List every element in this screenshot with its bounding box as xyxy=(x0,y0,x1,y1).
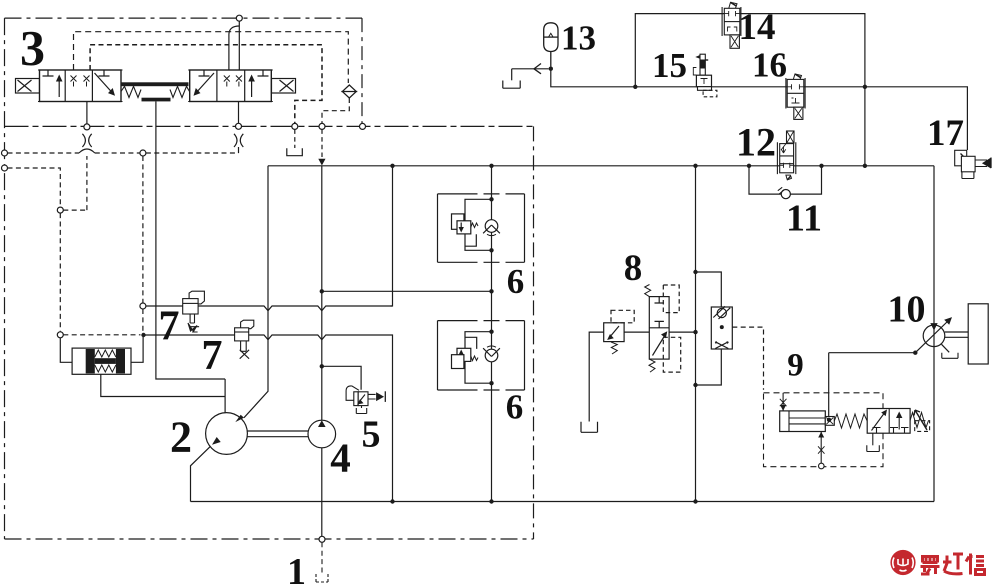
wire: valve3 right pilot vertical x=239 to top circle xyxy=(238,21,240,70)
dashed drain lateral y=152.5 with hump over x=86.4 xyxy=(8,152,80,154)
group8 relief drain to tank xyxy=(589,332,604,421)
svg-text:1: 1 xyxy=(287,551,306,585)
valve 3 left pilot end box with X xyxy=(16,79,40,94)
svg-text:15: 15 xyxy=(652,46,687,85)
dashed link from node right to valve3 cell drop x=86.4 xyxy=(63,156,87,210)
wire: pump4 branch y=290.8 to check assemblies chain xyxy=(322,290,492,292)
enclosure frame right-top segment xyxy=(361,18,363,123)
servo control cylinder of pump 2 xyxy=(72,348,131,374)
wire valve3 left block bottom to rail xyxy=(86,102,88,124)
directional control valve 3 xyxy=(16,70,296,102)
group8 pilot dashed line to actuator 9 xyxy=(732,327,763,390)
group8 check cartridge box xyxy=(711,307,732,349)
group9 dashed enclosure xyxy=(764,393,884,467)
wire: x=392 riser from supply to y=306 xyxy=(391,166,393,307)
group9 spring xyxy=(834,414,867,428)
svg-text:3: 3 xyxy=(20,20,45,76)
dashed line from diamond down to pilot rail circle xyxy=(322,98,349,123)
servo pilot node circle x=58 y=334.3 xyxy=(57,332,63,338)
wire cylinder right port riser x=142.6 xyxy=(131,335,143,362)
svg-text:6: 6 xyxy=(507,262,525,301)
wire: motor return x=933.5 lower to tank line xyxy=(933,347,935,502)
relief valve 5 xyxy=(346,386,385,414)
svg-text:10: 10 xyxy=(888,289,926,331)
pilot rail node circle x=86.4 with valve3 left drop xyxy=(84,124,90,130)
valve 3 spring right xyxy=(170,86,190,97)
group9 valve right spring with arrow xyxy=(910,413,928,428)
dashed pilot arrow from rail to supply junction x=321.5 xyxy=(321,129,323,158)
assembly 6 lower relief square with arrow xyxy=(457,348,471,361)
group9 valve drain tank xyxy=(872,433,874,445)
dashed pilot box 1 around valve 3 xyxy=(74,32,349,83)
wire: component-8 bypass vertical x=695 xyxy=(695,166,697,502)
group9 cylinder xyxy=(780,411,826,432)
logic valve group 8 xyxy=(581,270,764,433)
valve 3 left block body xyxy=(40,70,122,102)
enclosure frame top dash-dot xyxy=(5,17,363,19)
throttle orifice below right rail node xyxy=(234,134,243,147)
svg-text:13: 13 xyxy=(561,19,596,58)
node circle x=142.4 y=152.5 xyxy=(140,150,146,156)
svg-text:2: 2 xyxy=(170,413,192,462)
pilot pump 4 xyxy=(308,420,336,448)
wire: valve3 second pilot vertical x=228.4 with S-hook xyxy=(229,26,239,70)
group9 pilot valve body xyxy=(867,409,910,434)
group8 main valve body xyxy=(649,297,669,360)
pressure switch 17 xyxy=(955,150,991,178)
group8 bypass branch to check cartridge xyxy=(696,272,722,307)
node circle x=142.4 y=305.5 xyxy=(140,303,146,309)
valve 3 bold tank T bar xyxy=(142,98,171,102)
throttle orifice below left rail node xyxy=(82,134,91,147)
wire: line y=334.5 drain with crossover V hops and drop to tank line xyxy=(144,335,393,502)
branch to valve 14 top rail xyxy=(635,14,865,166)
reducing valve 15 xyxy=(693,54,717,97)
motor10 output shaft xyxy=(945,332,968,337)
valve 3 block double edge lines xyxy=(38,70,273,102)
enclosure frame bottom dash-dot xyxy=(5,538,534,540)
valve 3 right block cell1 diagonal arrow xyxy=(196,73,215,94)
group9 pilot feed from motor line xyxy=(828,353,830,417)
variable displacement pump 2 xyxy=(206,413,248,455)
motor10 variable arrow diagonal xyxy=(915,320,949,353)
assembly 6 upper pilot rect xyxy=(452,214,464,229)
dashed vertical from node down to servo pilot circle xyxy=(59,213,61,331)
svg-text:12: 12 xyxy=(736,120,776,165)
svg-text:7: 7 xyxy=(202,333,223,379)
red watermark text dingdaxin xyxy=(921,554,985,575)
dashed lateral y=334.3 from circle to cylinder junction xyxy=(63,334,140,336)
valve 3 left block cell1 up-arrow and port T xyxy=(58,78,60,98)
wire: tank return line y=501 xyxy=(191,501,935,503)
wire: pump2 suction diagonal to tank line xyxy=(191,445,213,502)
wire: check-assembly chain vertical x=491 xyxy=(491,166,493,502)
tank symbol under valve 3 pilot drain xyxy=(287,148,303,155)
left frame port circle y=167.5 xyxy=(2,165,8,171)
svg-text:11: 11 xyxy=(786,198,822,240)
svg-text:4: 4 xyxy=(330,435,351,481)
svg-text:5: 5 xyxy=(362,414,381,456)
node circle on top frame feeding valve 3 pilot xyxy=(236,15,242,21)
assembly 6 lower bottom tee xyxy=(465,361,492,383)
group8 pilot relief left xyxy=(604,323,624,342)
left frame port circle y=152.5 xyxy=(2,150,8,156)
pilot rail node circle x=321.5 xyxy=(319,123,325,129)
pilot rail node circle x=238 with valve3 right drop xyxy=(236,123,242,129)
wire right throttle down to dashed drain lateral xyxy=(238,147,240,153)
pilot operated valve 7 lower xyxy=(235,320,254,359)
pilot accumulator supply line y=86.3 xyxy=(551,14,968,166)
wire: valve5 branch y=365.8 xyxy=(322,366,361,390)
assembly 6 lower relief spring xyxy=(471,356,478,361)
group8 main valve bottom spring xyxy=(649,359,655,372)
wire: pump2 discharge riser x=267.5 to supply line xyxy=(244,166,268,418)
svg-text:17: 17 xyxy=(927,113,964,154)
junction dot cylinder right port y=334.5 xyxy=(141,333,145,337)
enclosure frame left edge xyxy=(4,18,6,539)
dashed drain lateral continuation to x=238 xyxy=(95,152,239,154)
svg-text:14: 14 xyxy=(739,7,776,48)
check valve 11 loop under valve 12 xyxy=(747,164,824,199)
wire: main supply line y=165.3 xyxy=(268,165,934,167)
svg-text:8: 8 xyxy=(624,248,643,289)
assembly 6 upper top tee xyxy=(465,199,492,221)
wire: pump2 top port collector x=224.6 xyxy=(224,379,226,413)
wire: pump4 discharge riser x=321.3 with hop Vs xyxy=(321,166,323,420)
assembly 6 lower pilot rect xyxy=(452,355,464,369)
pump4 suction tank circle xyxy=(319,536,325,542)
wire: motor supply drop x=933.5 upper xyxy=(933,166,935,326)
variable motor 10 xyxy=(829,304,989,364)
wire: valve-3 drain x=155.4 down and right to pump2 xyxy=(156,102,225,380)
filter check diamond on pilot supply xyxy=(341,85,357,98)
motor10 control line to group 9 xyxy=(829,352,916,354)
accumulator 13 xyxy=(544,23,558,71)
pilot rail node circle x=294.3 xyxy=(292,123,298,129)
enclosure frame right vertical x=533 xyxy=(533,126,535,539)
assembly 6 upper check valve xyxy=(485,220,498,233)
assembly 6 upper relief spring xyxy=(471,223,478,228)
pilot rail y=125.9 dash-dot xyxy=(5,125,534,127)
arrowhead onto supply junction xyxy=(318,159,325,166)
valve 3 right block cell2 pilot X marks xyxy=(224,76,242,82)
svg-text:16: 16 xyxy=(752,46,787,85)
wire valve3 right block bottom to rail xyxy=(238,102,240,124)
wire cylinder left port from pilot circle xyxy=(60,338,72,363)
red watermark logo xyxy=(890,550,915,575)
group9 bottom drain orifice X xyxy=(820,432,822,464)
tank line junction dots xyxy=(320,164,868,504)
crossover hump at x=86.4 xyxy=(79,149,95,153)
motor10 case drain to tank xyxy=(942,344,950,352)
wire: pump4 suction to tank circle xyxy=(321,448,323,536)
accumulator relief to tank xyxy=(503,64,549,89)
group9 top feed orifice X xyxy=(782,393,784,411)
dashed vertical x=142.4 between node circles xyxy=(142,156,144,332)
pump drive shaft xyxy=(247,431,308,437)
dashed drain from rail to tank under valve 3 xyxy=(294,129,296,148)
node circle x=59.8 y=209.6 xyxy=(57,207,63,213)
valve 3 spring left xyxy=(121,86,141,97)
svg-text:6: 6 xyxy=(506,388,524,427)
dashed pilot box 2 around valve 3 xyxy=(90,45,322,124)
check/relief assembly 6 lower xyxy=(438,321,525,390)
pilot rail node circle x=362 xyxy=(360,123,366,129)
load block xyxy=(968,304,988,364)
group8 pilot dashed chambers xyxy=(663,285,679,313)
cartridge valve 14 xyxy=(722,2,741,48)
valve 3 bold center link bar xyxy=(121,82,189,86)
assembly 6 upper relief square with arrow xyxy=(457,221,471,234)
wire: line y=306 pilot feed with crossover V hops xyxy=(146,306,393,311)
assembly 6 upper junction dots xyxy=(489,197,493,201)
valve 3 left block cell2 pilot X marks xyxy=(71,76,90,82)
assembly 6 lower top tee xyxy=(465,332,492,349)
group8 pilot link relief to main valve xyxy=(624,331,695,333)
assembly 6 upper drain loop xyxy=(465,234,492,250)
sequencing valve 16 xyxy=(786,74,805,119)
servo actuator group 9 xyxy=(764,353,930,469)
valve 3 right block body xyxy=(190,70,272,102)
check/relief assembly 6 upper xyxy=(438,194,525,262)
group9 rod end orifice box xyxy=(825,417,834,426)
svg-text:9: 9 xyxy=(787,348,804,384)
wire: servo cylinder bottom port to pump2 collector xyxy=(101,374,225,396)
valve 3 right pilot end box with X xyxy=(272,79,296,94)
svg-text:7: 7 xyxy=(159,304,180,350)
assembly 6 lower check valve xyxy=(485,349,498,362)
pilot operated valve 7 upper xyxy=(183,291,205,332)
valve 3 right block cell3 up-arrow and port T xyxy=(251,78,253,98)
dashed pilot line from left frame to x=59.8 xyxy=(8,168,61,207)
group8 junction dots xyxy=(693,270,697,274)
group8 main valve top spring xyxy=(645,285,651,297)
assembly 6 lower junction dots xyxy=(489,330,493,334)
unloading valve 12 xyxy=(777,131,795,180)
valve 3 left block cell3 diagonal arrow xyxy=(95,73,114,94)
suction strainer below tank circle xyxy=(316,542,328,582)
